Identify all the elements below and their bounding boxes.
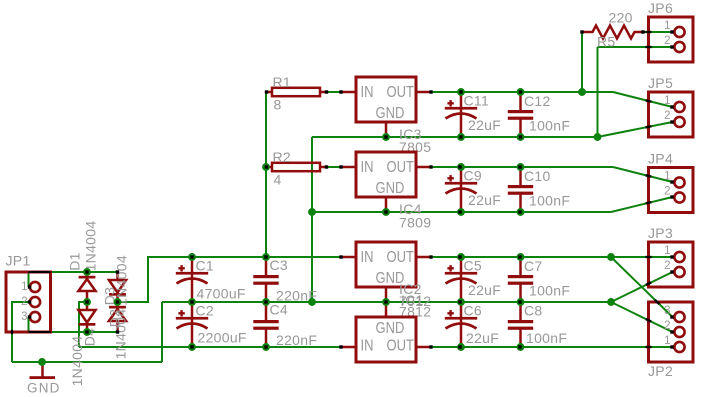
svg-text:100nF: 100nF: [529, 283, 570, 299]
junction (520.5,347): [517, 343, 525, 351]
svg-text:3: 3: [21, 311, 27, 323]
svg-text:IC1: IC1: [401, 292, 424, 308]
pin end (460,212): [458, 210, 461, 213]
pin end (520,167): [518, 165, 521, 168]
pin end (672,317): [670, 315, 673, 318]
pin end (672,47): [670, 45, 673, 48]
pin end (87,272): [85, 270, 88, 273]
svg-text:C3: C3: [270, 257, 289, 273]
svg-text:R5: R5: [597, 34, 616, 50]
svg-text:JP5: JP5: [648, 75, 673, 91]
pin end (520,302): [518, 300, 521, 303]
ground GND: [27, 362, 61, 396]
pin end (266.5,92): [265, 90, 268, 93]
svg-text:GND: GND: [376, 180, 405, 197]
pin end (431,167): [429, 165, 432, 168]
wire R5 to JP6 pin1: [643, 31, 673, 33]
pin end (431,257): [429, 255, 432, 258]
junction (611,302): [607, 298, 615, 306]
junction (312,302): [308, 298, 316, 306]
capacitor C8 100nF: [508, 302, 567, 347]
overlap JP1 bottom edge wire: [29, 331, 51, 333]
connector JP6: [648, 0, 693, 62]
pin end (29.5,302): [28, 300, 31, 303]
wire GND net riser to mid rail: [161, 302, 163, 362]
capacitor C4: [253, 302, 278, 347]
svg-text:C9: C9: [464, 168, 483, 184]
wire +DC rail to regulators IN: [148, 256, 341, 258]
junction (386,137): [382, 133, 390, 141]
svg-text:GND: GND: [376, 105, 405, 122]
overlap wire x box edge (648.5,202.8): [646, 202, 652, 203]
wire GND net left dropper: [11, 301, 13, 362]
svg-text:GND: GND: [376, 320, 405, 337]
svg-text:2: 2: [664, 260, 670, 272]
svg-text:1: 1: [664, 170, 670, 182]
wire diagonal to JP5 pin 1: [613, 92, 673, 107]
pin end (672,122): [670, 120, 673, 123]
pin end (341,257): [339, 255, 342, 258]
junction (87,302): [83, 298, 91, 306]
junction (266,347): [262, 343, 270, 351]
svg-text:22uF: 22uF: [468, 192, 501, 208]
svg-text:C7: C7: [524, 258, 543, 274]
svg-text:100nF: 100nF: [529, 118, 570, 134]
wire GND rail row2: [312, 211, 611, 213]
junction (520.5,167): [517, 163, 525, 171]
svg-text:2: 2: [21, 296, 27, 308]
junction (312,212): [308, 208, 316, 216]
svg-text:JP2: JP2: [648, 363, 673, 379]
svg-text:220nF: 220nF: [276, 332, 317, 348]
wire JP1 pin3 dropper: [28, 317, 30, 332]
pin end (266,347): [264, 345, 267, 348]
capacitor C6 22uF (polarized): [445, 302, 499, 347]
junction (192,257): [188, 253, 196, 261]
pin end (117.5,332): [116, 330, 119, 333]
svg-text:2: 2: [664, 110, 670, 122]
pin end (431,92): [429, 90, 432, 93]
capacitor C10 100nF: [508, 167, 570, 212]
junction (266,302): [262, 298, 270, 306]
pin end (672,197): [670, 195, 673, 198]
overlap JP1 pin2 dropper: [11, 330, 13, 334]
pin end (672,257): [670, 255, 673, 258]
capacitor C9 22uF (polarized): [445, 167, 501, 212]
overlap wire x box edge (648.5,320.3): [646, 319, 651, 322]
capacitor C5 22uF (polarized): [445, 257, 501, 302]
svg-text:7809: 7809: [399, 215, 431, 231]
junction (520.5,302): [517, 298, 525, 306]
svg-text:GND: GND: [27, 381, 61, 396]
pin end (461,92): [459, 90, 462, 93]
svg-text:C8: C8: [524, 303, 543, 319]
wire +12V OUT rail IC2: [431, 256, 611, 258]
svg-text:22uF: 22uF: [468, 117, 501, 133]
wire -DC rail: [79, 346, 341, 348]
overlap wire x box edge (648.5,347): [646, 346, 652, 348]
wire R2 to IC4 IN: [327, 166, 342, 168]
pin end (386,212): [384, 210, 387, 213]
wire R5 riser: [581, 32, 583, 92]
voltage regulator IC2 7812: [341, 242, 431, 320]
svg-text:22uF: 22uF: [468, 282, 501, 298]
wire diagonal node B to JP3 pin 2: [611, 272, 673, 302]
svg-text:D1: D1: [67, 252, 83, 271]
wire diode mid col2 to +DC riser: [118, 301, 149, 303]
svg-text:22uF: 22uF: [466, 330, 499, 346]
svg-text:1: 1: [21, 281, 27, 293]
connector JP4: [648, 151, 693, 213]
diode D4 1N4004: [69, 302, 98, 386]
junction (520.5,137): [517, 133, 525, 141]
resistor R1 8: [267, 74, 327, 113]
wire +8V OUT rail IC3 to bend: [431, 91, 613, 93]
pin end (326.5,92): [325, 90, 328, 93]
junction (461,92): [457, 88, 465, 96]
svg-text:2: 2: [664, 320, 670, 332]
wire JP6 pin2 to GND riser: [597, 47, 599, 137]
junction (117.5,302): [114, 298, 122, 306]
svg-text:IN: IN: [361, 159, 374, 176]
pin end (341,347): [339, 345, 342, 348]
pin end (431,347): [429, 345, 432, 348]
svg-text:1: 1: [664, 335, 670, 347]
junction (461,167): [457, 163, 465, 171]
pin end (520,212): [518, 210, 521, 213]
overlap wire x box edge (648.5,257): [646, 256, 652, 258]
wire R1 R2 feed riser: [265, 92, 267, 257]
overlap wire x box edge (648.5,101): [646, 100, 652, 101]
connector JP2: [648, 302, 693, 379]
pin end (672,332): [670, 330, 673, 333]
svg-text:C4: C4: [270, 302, 289, 318]
junction (461,212): [457, 208, 465, 216]
pin end (672,182): [670, 180, 673, 183]
junction (192,347): [188, 343, 196, 351]
svg-text:C10: C10: [524, 168, 551, 184]
svg-text:1N4004: 1N4004: [113, 309, 129, 360]
junction (87,272): [83, 268, 91, 276]
wire diode mid to -DC drop col1: [79, 301, 87, 303]
svg-text:3: 3: [664, 305, 670, 317]
svg-text:JP1: JP1: [6, 253, 31, 269]
svg-text:8: 8: [274, 97, 282, 113]
svg-text:100nF: 100nF: [529, 193, 570, 209]
svg-text:OUT: OUT: [387, 337, 415, 354]
connector JP5: [648, 75, 693, 137]
junction (266,167): [262, 163, 270, 171]
svg-text:1N4004: 1N4004: [83, 221, 99, 272]
pin end (460,167): [458, 165, 461, 168]
svg-text:2: 2: [664, 185, 670, 197]
pin end (460,257): [458, 255, 461, 258]
diode D3 1N4004: [102, 255, 130, 306]
overlap wire x box edge (648.5,126.8): [646, 126, 652, 127]
junction (461,257): [457, 253, 465, 261]
svg-text:IN: IN: [361, 249, 374, 266]
wire diagonal to JP4 pin 1: [613, 167, 673, 182]
svg-text:OUT: OUT: [387, 249, 415, 266]
svg-text:OUT: OUT: [387, 84, 415, 101]
junction (42,362): [38, 358, 46, 366]
wire GND net bottom run: [12, 361, 162, 363]
svg-text:C2: C2: [196, 303, 215, 319]
pin end (192,302): [190, 300, 193, 303]
wire diagonal GND to JP5 pin 2: [598, 122, 673, 137]
junction (87,332): [83, 328, 91, 336]
pin end (672,347): [670, 345, 673, 348]
pin end (643,32): [641, 30, 644, 33]
svg-text:100nF: 100nF: [526, 330, 567, 346]
pin end (192,257): [190, 255, 193, 258]
capacitor C7 100nF: [508, 257, 570, 302]
pin end (520,347): [518, 345, 521, 348]
junction (461,137): [457, 133, 465, 141]
pin end (326.5,167): [325, 165, 328, 168]
pin end (117.5,272): [116, 270, 119, 273]
overlap wire x box edge (648.5,47): [646, 46, 652, 48]
svg-text:C12: C12: [524, 93, 551, 109]
voltage regulator IC3 7805: [341, 77, 431, 155]
pin end (460,302): [458, 300, 461, 303]
wire AC1 top rail JP1 pin1 to diodes: [29, 271, 118, 273]
wire JP6 pin2 horizontal: [598, 46, 673, 48]
svg-text:R1: R1: [273, 74, 292, 90]
junction (520.5,257): [517, 253, 525, 261]
junction (461,302): [457, 298, 465, 306]
svg-text:220: 220: [609, 10, 633, 26]
svg-text:4: 4: [274, 172, 282, 188]
svg-text:1N4004: 1N4004: [69, 336, 85, 387]
wire GND riser g1-mid: [311, 137, 313, 302]
pin end (192,347): [190, 345, 193, 348]
wire diagonal GND to JP4 pin 2: [611, 197, 673, 212]
pin end (520.5,92): [519, 90, 522, 93]
pin end (87,332): [85, 330, 88, 333]
svg-text:1: 1: [664, 245, 670, 257]
junction (266,257): [262, 253, 270, 261]
junction (611,257): [607, 253, 615, 261]
connector JP1: [6, 253, 51, 333]
junction (192,302): [188, 298, 196, 306]
wire diagonal node B to JP2 pin 2: [611, 302, 673, 332]
junction (582,92): [578, 88, 586, 96]
pin end (341,167): [339, 165, 342, 168]
pin end (672,107): [670, 105, 673, 108]
capacitor C3: [253, 257, 278, 302]
svg-text:2200uF: 2200uF: [198, 330, 247, 346]
pin end (266,257): [264, 255, 267, 258]
resistor R5 220: [582, 10, 643, 50]
pin end (87,302): [85, 300, 88, 303]
svg-text:OUT: OUT: [387, 159, 415, 176]
junction (386,212): [382, 208, 390, 216]
pin end (266,302): [264, 300, 267, 303]
wire ground mid rail: [162, 301, 611, 303]
wire -12V OUT rail IC1 to JP2 pin 1: [431, 346, 673, 348]
wire R1 to IC3 IN: [327, 91, 342, 93]
svg-text:JP3: JP3: [648, 225, 673, 241]
pin end (672,32): [670, 30, 673, 33]
capacitor C12 100nF: [508, 92, 570, 137]
diode D2 1N4004: [107, 302, 129, 359]
junction (597.5,137): [594, 133, 602, 141]
wire diagonal node A to JP2 pin 3: [611, 257, 673, 317]
capacitor C1 (polarized): [176, 257, 208, 302]
pin end (29.5,287): [28, 285, 31, 288]
voltage regulator IC1 7912: [341, 292, 431, 362]
pin end (386,302): [384, 300, 387, 303]
svg-text:2: 2: [664, 35, 670, 47]
svg-text:C6: C6: [464, 303, 483, 319]
svg-text:IN: IN: [361, 337, 374, 354]
pin end (520.5,137): [519, 135, 522, 138]
pin end (672,272): [670, 270, 673, 273]
wire JP1 pin2 stub: [12, 301, 29, 303]
pin end (461,137): [459, 135, 462, 138]
svg-text:JP4: JP4: [648, 151, 673, 167]
wire GND rail row1: [312, 136, 598, 138]
overlap wire x box edge (648.5,283.7): [646, 282, 651, 285]
voltage regulator IC4 7809: [341, 152, 431, 231]
svg-text:C1: C1: [196, 258, 215, 274]
svg-text:1: 1: [664, 20, 670, 32]
junction (461,347): [457, 343, 465, 351]
overlap wire x box edge (648.5,176): [646, 175, 652, 176]
pin end (29.5,317): [28, 315, 31, 318]
pin end (266.5,167): [265, 165, 268, 168]
connector JP3: [648, 225, 693, 287]
junction (520.5,92): [517, 88, 525, 96]
svg-text:IN: IN: [361, 84, 374, 101]
pin end (117.5,302): [116, 300, 119, 303]
wire node A to JP3 pin 1: [611, 256, 673, 258]
diode D1 1N4004: [67, 221, 99, 302]
svg-text:R2: R2: [273, 149, 292, 165]
resistor R2 4: [267, 149, 327, 188]
pin end (460,347): [458, 345, 461, 348]
svg-text:JP6: JP6: [648, 0, 673, 16]
wire AC2 bottom rail JP1 pin3 to diodes: [29, 331, 118, 333]
capacitor C2 (polarized): [176, 302, 208, 347]
svg-text:C5: C5: [464, 258, 483, 274]
pin end (582,32): [580, 30, 583, 33]
wire +9V OUT rail IC4 to bend: [431, 166, 613, 168]
overlap wire x box edge (657.1,302): [655, 300, 659, 304]
overlap wire x box edge (648.5,32): [646, 31, 652, 33]
svg-text:4700uF: 4700uF: [197, 286, 246, 302]
overlap JP1 top edge wire: [29, 271, 51, 273]
svg-text:C11: C11: [464, 93, 490, 109]
wire JP1 pin1 riser: [28, 272, 30, 287]
pin end (386,137): [384, 135, 387, 138]
capacitor C11 22uF (polarized): [445, 92, 501, 137]
pin end (520,257): [518, 255, 521, 258]
junction (386,302): [382, 298, 390, 306]
pin end (341,92): [339, 90, 342, 93]
svg-text:1N4004: 1N4004: [114, 255, 130, 306]
junction (520.5,212): [517, 208, 525, 216]
svg-text:1: 1: [664, 95, 670, 107]
